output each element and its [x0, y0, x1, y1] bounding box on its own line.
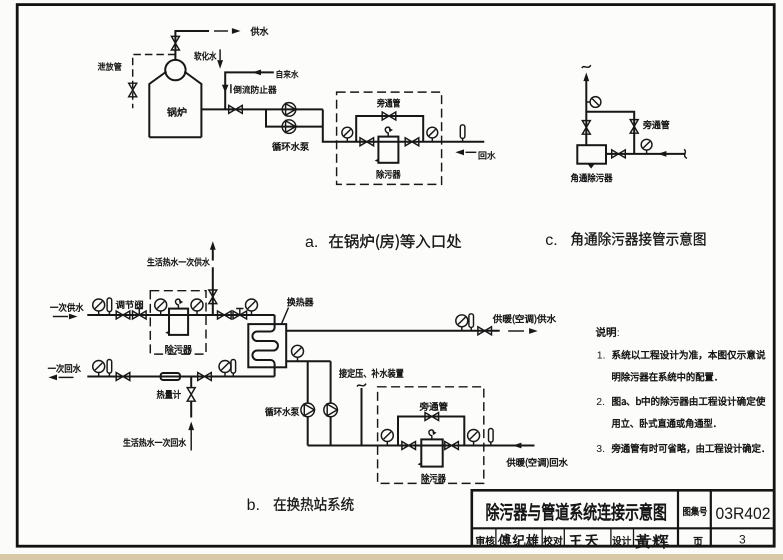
regulating valve V14	[233, 311, 247, 319]
label 校对	[543, 536, 562, 545]
main pipe through separator group	[337, 141, 485, 143]
label + arrow 一次供水	[50, 303, 83, 312]
return flow arrow 回水	[455, 149, 464, 155]
label 旁通管 (c)	[643, 120, 669, 129]
label 换热器	[287, 298, 313, 307]
valve V2 on drain pipe	[129, 83, 137, 97]
circulating pump P2	[282, 120, 296, 134]
signature 王天	[569, 535, 600, 547]
regulating valve V11	[133, 311, 147, 319]
label + arrow 一次回水	[48, 364, 81, 373]
thermometer T1	[460, 125, 465, 142]
notes 说明	[596, 327, 616, 337]
pressure gauge PG7	[191, 299, 203, 315]
scanner edge strip (bottom)	[0, 554, 783, 560]
signature 傅纪雄	[498, 534, 539, 548]
flow arrow into separator	[658, 151, 667, 157]
label 供水	[251, 27, 269, 36]
thermometer T6	[489, 429, 494, 446]
label 角通除污器	[571, 173, 612, 182]
pressure gauge PG3	[586, 97, 601, 108]
primary return pipe	[87, 376, 274, 378]
label 生活热水一次供水	[147, 258, 209, 267]
circulating pump P3	[301, 403, 315, 417]
label 生活热水一次回水	[123, 438, 185, 447]
bypass pipe (b)	[398, 417, 464, 446]
circulating pump P4	[324, 403, 338, 417]
valve V19 on bypass	[425, 413, 439, 421]
signature 黄辉	[635, 534, 669, 549]
heat meter 热量计	[161, 373, 180, 380]
valve V20	[402, 442, 416, 450]
secondary supply pipe 供暖(空调)供水	[286, 330, 500, 332]
title text	[487, 503, 666, 521]
pipe: boiler steam/supply riser	[175, 31, 209, 60]
boiler outlet main pipe	[201, 109, 336, 141]
dashed enclosure box (section b separator 2)	[378, 387, 484, 484]
svg-text:03R402: 03R402	[716, 505, 771, 523]
label 页	[694, 537, 703, 546]
label 供暖(空调)回水	[507, 458, 568, 468]
leader line for 换热器	[282, 308, 289, 324]
label 循环水泵	[272, 142, 309, 151]
heat exchanger 换热器	[248, 324, 286, 367]
valve V4 on bypass	[382, 112, 396, 120]
primary supply pipe	[87, 314, 274, 316]
pressure gauge PG10	[219, 361, 231, 377]
label 审核	[476, 536, 494, 545]
valve V10	[116, 311, 130, 319]
valve V21	[445, 442, 459, 450]
valve V13	[218, 311, 232, 319]
valve V18	[478, 327, 492, 335]
label 倒流防止器	[233, 85, 276, 93]
riser 生活热水一次回水	[190, 377, 192, 418]
thermometer T4	[231, 360, 236, 377]
label 泄放管	[98, 62, 121, 70]
svg-text:3: 3	[739, 533, 746, 547]
dirt separator 除污器 (b1)	[169, 309, 188, 335]
pressure gauge PG1	[342, 127, 353, 142]
label 除污器 (b1)	[165, 345, 191, 354]
valve V5	[360, 138, 374, 146]
flow arrow to 供水 (supply)	[214, 30, 228, 32]
label 旁通管	[377, 99, 400, 108]
dirt separator 除污器 (a)	[378, 137, 398, 163]
label 软化水 + down arrow	[194, 52, 216, 61]
pressure gauge PG5	[93, 299, 105, 315]
label 供暖(空调)供水	[493, 314, 556, 324]
svg-text::: :	[617, 327, 620, 339]
pressure gauge PG2	[427, 127, 438, 142]
label 除污器	[377, 170, 401, 179]
boiler 锅炉	[149, 72, 201, 138]
svg-text:3.: 3.	[596, 443, 605, 455]
thermometer T3	[107, 360, 112, 377]
svg-text:c.: c.	[545, 232, 557, 249]
check valve 倒流防止器	[222, 85, 229, 93]
label 除污器 (b2)	[422, 474, 446, 483]
valve V8 on bypass	[630, 120, 638, 134]
dashed enclosure box (section a separator group)	[337, 92, 442, 184]
tap water pipe 自来水	[225, 72, 274, 109]
label 接定压、补水装置	[339, 369, 403, 378]
svg-text:a.: a.	[305, 234, 318, 251]
valve V16 on riser	[187, 388, 195, 402]
pressure gauge PG13	[381, 430, 393, 446]
valve V12 on riser	[209, 290, 217, 304]
secondary return pipe	[308, 445, 535, 447]
svg-text:2.: 2.	[596, 396, 605, 408]
label 图集号	[683, 507, 707, 516]
label 回水	[479, 151, 496, 159]
pressure gauge PG4	[641, 139, 652, 154]
valve V9	[612, 150, 626, 158]
label 热量计	[157, 390, 181, 399]
label 调节阀	[116, 300, 143, 308]
thermometer T2	[107, 298, 112, 315]
bypass pipe 旁通管	[356, 116, 423, 142]
pressure gauge PG11	[456, 315, 468, 331]
label 设计	[613, 536, 631, 545]
valve V1 on boiler riser	[171, 36, 179, 50]
angle dirt separator 角通除污器	[577, 145, 606, 164]
title block frame	[472, 490, 774, 546]
valve V15	[116, 373, 130, 381]
label 旁通管 (b)	[420, 402, 448, 411]
valve V6	[405, 138, 419, 146]
label 循环水泵 (b)	[265, 407, 299, 416]
pressure gauge PG6	[155, 299, 167, 315]
outlet pipe (section c)	[606, 153, 685, 155]
bypass pipe (section c)	[586, 112, 634, 154]
drain pipe 泄放管 (dashed)	[133, 55, 176, 109]
dirt separator 除污器 (b2)	[421, 439, 442, 466]
dashed enclosure box (section b separator 1)	[150, 291, 206, 354]
valve V7	[582, 121, 590, 135]
valve V17	[198, 373, 212, 381]
circulating pump P1	[282, 103, 296, 117]
thermometer T5	[469, 314, 474, 331]
svg-text:b.: b.	[247, 497, 260, 514]
make-up water riser 接定压、补水装置	[361, 388, 363, 446]
valve V3 on boiler outlet	[229, 105, 243, 113]
svg-text:1.: 1.	[597, 350, 606, 362]
pressure gauge PG9	[93, 361, 105, 377]
pressure gauge PG8	[246, 299, 258, 315]
flow arrow (secondary supply)	[508, 330, 524, 332]
pressure gauge PG12	[292, 345, 304, 361]
flow arrow 供暖(空调)回水	[513, 443, 522, 449]
riser 生活热水一次供水	[212, 249, 214, 315]
riser pipe with break symbol (section c)	[582, 65, 591, 68]
label 锅炉	[167, 107, 186, 116]
secondary return header	[286, 361, 330, 445]
pressure gauge PG14	[468, 430, 480, 446]
label 自来水	[277, 70, 299, 78]
